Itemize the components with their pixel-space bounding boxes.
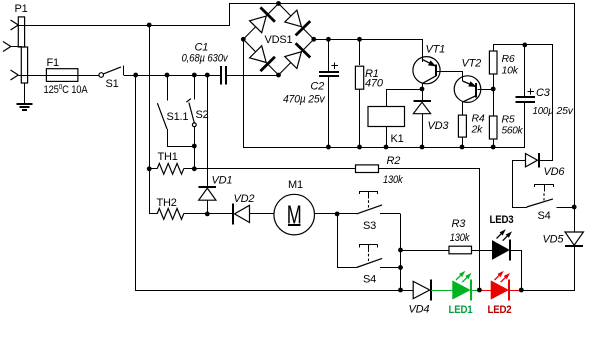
capacitor C1: [182, 42, 229, 85]
wire VT1 base to VT2: [437, 71, 463, 73]
svg-text:S4: S4: [538, 210, 551, 222]
svg-text:25v: 25v: [556, 105, 574, 117]
pushbutton S4 right: [527, 184, 575, 222]
svg-text:S2: S2: [196, 109, 209, 121]
resistor R4: [458, 113, 484, 148]
junction S4 / right rail: [572, 205, 577, 210]
relay K1: [368, 89, 422, 147]
ground: [16, 83, 32, 110]
wire C1 to bridge AC2: [226, 75, 279, 77]
svg-text:C3: C3: [536, 87, 551, 99]
junction S vertical / R3: [398, 248, 403, 253]
wire TH branch vertical: [149, 25, 151, 214]
wire F1 row: [18, 75, 46, 77]
svg-text:R6: R6: [502, 53, 515, 65]
wire F1 to S1: [78, 75, 99, 77]
wire VT2 base: [478, 89, 494, 91]
wire aux rail: [493, 44, 553, 46]
LED1: [431, 272, 479, 316]
junction S2 top: [192, 73, 197, 78]
wire S-right vertical: [400, 214, 402, 290]
resistor R1: [355, 39, 383, 147]
junction TH2/VD1/VD2 node: [205, 212, 210, 217]
junction K1 bus: [384, 145, 389, 150]
svg-text:VT1: VT1: [426, 44, 446, 56]
svg-text:130k: 130k: [450, 232, 470, 244]
svg-text:0,68µ 630v: 0,68µ 630v: [182, 53, 229, 65]
svg-text:S4: S4: [363, 274, 376, 286]
svg-text:470: 470: [365, 78, 384, 90]
switch S1: [99, 65, 124, 90]
LED3: [490, 214, 523, 290]
resistor R5: [489, 89, 523, 147]
wire R2 right: [378, 168, 480, 170]
svg-text:S3: S3: [363, 220, 376, 232]
junction R4 bus: [460, 145, 465, 150]
thermistor TH2: [149, 197, 207, 219]
junction S1.1 top: [165, 73, 170, 78]
connector P1: [3, 3, 28, 83]
svg-text:VD2: VD2: [234, 193, 255, 205]
junction bridge top vertex: [276, 1, 281, 6]
capacitor C2: [283, 39, 339, 147]
wire bottom right: [521, 290, 575, 292]
junction LED2/LED3/VD5: [519, 288, 524, 293]
switch S2: [186, 75, 208, 146]
diode VD5: [543, 232, 584, 246]
LED2: [479, 272, 521, 316]
diode VD4: [409, 280, 432, 316]
junction C2 bus: [326, 145, 331, 150]
junction VD1 top: [205, 73, 210, 78]
junction M1/S3/S4: [335, 212, 340, 217]
svg-text:VT2: VT2: [462, 58, 482, 70]
junction VT1 collector node: [420, 87, 425, 92]
pushbutton S3: [337, 191, 400, 232]
thermistor TH1: [149, 151, 194, 174]
svg-text:LED1: LED1: [449, 304, 473, 316]
junction R1 bus: [357, 145, 362, 150]
bridge rectifier VDS1: [243, 4, 313, 76]
resistor R3: [401, 218, 493, 254]
junction C2 top: [326, 37, 331, 42]
junction frame-left node: [133, 73, 138, 78]
svg-text:10k: 10k: [502, 65, 519, 77]
svg-text:VD1: VD1: [212, 175, 233, 187]
svg-text:TH1: TH1: [158, 151, 178, 163]
junction TH-feed on top wire: [147, 23, 152, 28]
svg-text:S1: S1: [106, 78, 119, 90]
transistor VT1: [413, 39, 445, 89]
svg-text:TH2: TH2: [157, 197, 177, 209]
switch S1.1: [157, 75, 188, 146]
diode VD6: [512, 153, 565, 208]
wire S1 to C1 row: [123, 75, 221, 77]
wire mains top rail: [18, 25, 230, 27]
svg-text:100µ: 100µ: [533, 105, 554, 117]
svg-text:1250C 10A: 1250C 10A: [44, 82, 89, 96]
svg-text:LED2: LED2: [488, 304, 512, 316]
junction S vertical / bottom: [398, 288, 403, 293]
wire DC plus rail: [313, 39, 422, 41]
diode VD1: [199, 75, 233, 214]
junction bridge right vertex: [311, 37, 316, 42]
junction C3 top: [522, 43, 527, 48]
wire S1.1 bottom to S2 node: [167, 146, 194, 148]
junction S vertical / S4: [398, 265, 403, 270]
svg-text:130k: 130k: [383, 174, 403, 186]
wire DC minus: [243, 39, 245, 147]
junction R5 bus: [491, 145, 496, 150]
svg-text:2k: 2k: [471, 124, 484, 136]
svg-text:F1: F1: [47, 57, 60, 69]
pushbutton S4 motor: [337, 214, 400, 286]
transistor VT2: [454, 58, 481, 116]
junction VT2 base / R5-R6: [491, 87, 496, 92]
svg-text:VD6: VD6: [544, 166, 566, 178]
svg-text:K1: K1: [391, 133, 404, 145]
junction bridge bottom vertex: [276, 73, 281, 78]
wire M1 to S3 node: [315, 213, 338, 215]
junction TH1 left: [147, 166, 152, 171]
svg-text:VD3: VD3: [428, 120, 450, 132]
junction bottom / VD4 wire: [401, 290, 414, 292]
wire left frame: [135, 75, 137, 290]
junction bridge left vertex: [241, 37, 246, 42]
capacitor C3: [515, 45, 573, 117]
resistor R6: [489, 45, 518, 89]
diode VD2: [207, 193, 274, 225]
svg-text:M1: M1: [288, 179, 303, 191]
fuse F1: [44, 57, 89, 96]
svg-text:R2: R2: [387, 155, 401, 167]
svg-text:VD4: VD4: [409, 304, 430, 316]
svg-text:R3: R3: [452, 218, 467, 230]
svg-text:P1: P1: [15, 3, 28, 15]
junction S1.1/S2: [192, 144, 197, 149]
wire S2 node to TH1: [194, 146, 196, 169]
junction VD3 bus: [420, 145, 425, 150]
junction LED1/LED2: [477, 288, 482, 293]
svg-text:470µ 25v: 470µ 25v: [283, 94, 326, 106]
resistor R2: [356, 155, 404, 186]
motor M1: [274, 179, 315, 235]
svg-text:C2: C2: [310, 81, 324, 93]
wire R2 row left: [194, 168, 355, 170]
svg-text:VDS1: VDS1: [265, 34, 293, 46]
svg-text:LED3: LED3: [490, 214, 514, 226]
junction TH1 right: [192, 166, 197, 171]
junction R1 top: [357, 37, 362, 42]
diode VD3: [413, 89, 449, 147]
svg-text:VD5: VD5: [543, 234, 565, 246]
svg-text:560k: 560k: [502, 125, 524, 137]
svg-text:S1.1: S1.1: [167, 111, 189, 123]
